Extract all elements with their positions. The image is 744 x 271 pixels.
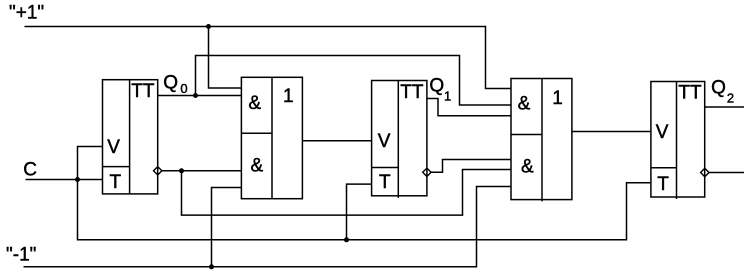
svg-text:&: & [521, 157, 534, 178]
svg-text:TT: TT [678, 83, 702, 104]
svg-text:T: T [110, 172, 122, 193]
svg-text:V: V [107, 137, 120, 158]
svg-text:"-1": "-1" [6, 245, 36, 266]
svg-text:2: 2 [727, 90, 734, 105]
svg-text:Q: Q [163, 73, 178, 94]
svg-text:&: & [518, 93, 531, 114]
svg-text:&: & [248, 93, 261, 114]
svg-text:1: 1 [283, 86, 294, 107]
svg-text:"+1": "+1" [9, 2, 44, 23]
svg-text:Q: Q [711, 78, 726, 99]
svg-text:0: 0 [180, 81, 187, 96]
svg-text:1: 1 [444, 89, 451, 104]
svg-text:C: C [23, 160, 37, 181]
svg-text:TT: TT [400, 82, 424, 103]
svg-text:TT: TT [131, 81, 155, 102]
svg-text:T: T [657, 174, 669, 195]
svg-text:&: & [251, 155, 264, 176]
svg-text:T: T [379, 172, 391, 193]
svg-text:Q: Q [429, 75, 444, 96]
svg-text:V: V [378, 131, 391, 152]
svg-text:1: 1 [552, 88, 563, 109]
svg-text:V: V [656, 122, 669, 143]
